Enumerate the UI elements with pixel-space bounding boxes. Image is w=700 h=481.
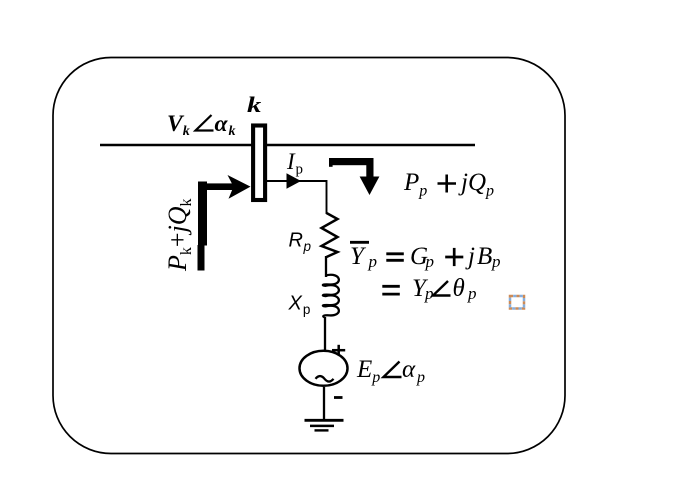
svg-text:p: p [368,252,378,271]
svg-text:k: k [247,92,262,117]
ground [305,420,344,430]
polarity minus [334,396,343,399]
wire source to ground [323,387,325,420]
svg-text:p: p [467,284,477,303]
label Pp + jQp [403,169,494,200]
label Ep angle alpha-p [356,356,425,386]
wire resistor to inductor [325,256,327,277]
enclosing rounded border frame [53,58,565,454]
resistor Rp [322,213,338,257]
wire inductor to source [324,317,326,351]
svg-text:θ: θ [453,275,465,302]
bus line (node k) [100,144,475,147]
svg-text:Pk+jQk: Pk+jQk [163,198,195,272]
wire busbar to shunt branch [266,181,327,214]
label Vk angle alpha-k [167,111,236,139]
svg-text:p: p [296,162,304,178]
svg-text:p: p [416,369,425,386]
svg-text:I: I [286,149,296,174]
equation = Yp angle theta-p [382,275,476,303]
ac voltage source Ep [300,351,348,386]
equation Yp = Gp + jBp [350,242,501,271]
anchor marker (dashed square) [510,296,524,309]
inductor Xp [323,275,339,317]
busbar k [253,126,265,201]
thick power-flow arrow Pk+jQk (elbow from below into busbar) [198,175,251,271]
svg-text:p: p [425,252,435,271]
svg-text:p: p [491,252,501,271]
current arrowhead Ip [287,173,302,189]
svg-text:p: p [424,284,434,303]
thick power-flow arrow Pp+jQp (elbow, down) [329,158,379,195]
svg-text:α: α [402,356,416,383]
svg-text:B: B [477,243,492,270]
polarity plus [332,345,345,355]
